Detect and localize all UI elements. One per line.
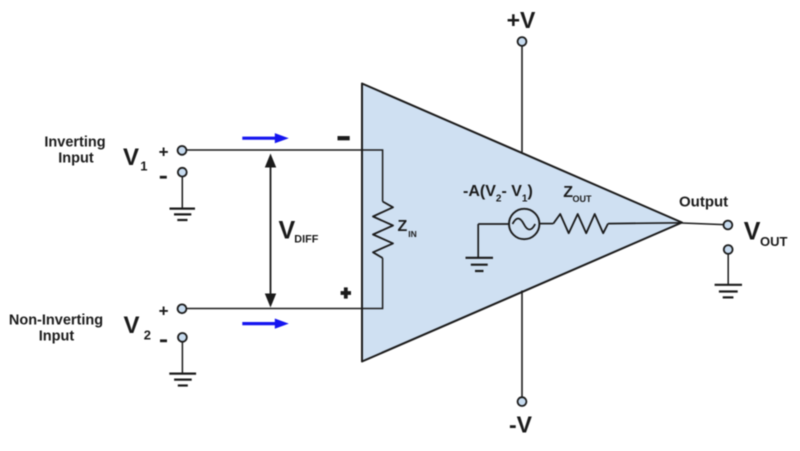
svg-text:+V: +V	[507, 7, 536, 33]
svg-text:Inverting: Inverting	[44, 135, 105, 151]
svg-text:V: V	[279, 216, 296, 244]
svg-text:OUT: OUT	[573, 194, 593, 204]
svg-text:Non-Inverting: Non-Inverting	[9, 312, 103, 328]
svg-text:IN: IN	[408, 229, 417, 239]
svg-text:OUT: OUT	[760, 234, 788, 249]
svg-text:V: V	[744, 218, 761, 246]
svg-text:V: V	[123, 144, 139, 171]
svg-text:Z: Z	[398, 218, 408, 235]
svg-text:+: +	[159, 302, 169, 321]
svg-text:DIFF: DIFF	[294, 234, 318, 246]
svg-text:+: +	[159, 143, 169, 162]
svg-text:Input: Input	[39, 328, 75, 344]
svg-text:2: 2	[144, 328, 151, 343]
svg-text:1: 1	[140, 159, 147, 174]
svg-text:V: V	[124, 312, 140, 339]
svg-text:Output: Output	[679, 193, 728, 210]
svg-text:Input: Input	[58, 151, 94, 167]
svg-text:-V: -V	[509, 412, 533, 438]
